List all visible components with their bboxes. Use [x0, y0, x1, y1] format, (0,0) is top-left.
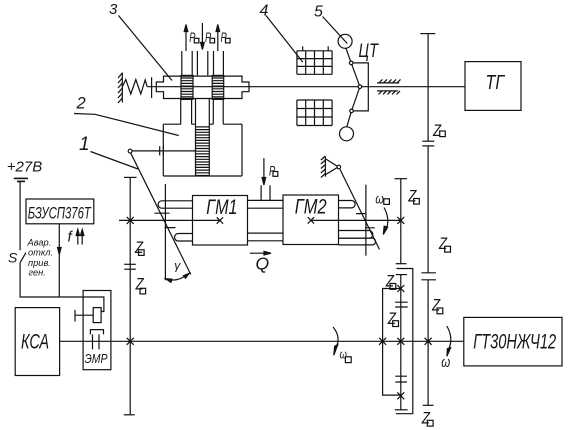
svg-text:Авар.: Авар. [27, 237, 52, 247]
valve stem shaft [147, 86, 465, 88]
valve spool land left [181, 75, 193, 99]
svg-text:Z: Z [421, 409, 430, 428]
svg-text:ω: ω [375, 191, 384, 207]
spring seat [151, 77, 153, 98]
sun gear mesh upper [395, 302, 408, 307]
svg-text:ЭМР: ЭМР [85, 351, 108, 366]
svg-text:γ: γ [174, 258, 181, 272]
servo link to lever [132, 146, 196, 155]
gear label Z left shaft upper [134, 238, 144, 257]
swash plate lever GM1 [131, 153, 191, 275]
GM1 piston ticks [155, 213, 176, 227]
svg-text:ГМ1: ГМ1 [206, 196, 237, 219]
feedback f arrows [68, 229, 84, 246]
svg-text:прив.: прив. [28, 258, 51, 268]
GM2 shaft mark [308, 217, 314, 223]
GM2 lower piston outer [339, 238, 376, 245]
sun gear mesh lower [395, 376, 407, 382]
junction lower shaft x carrier leg [379, 338, 386, 345]
left vertical gear shaft [124, 177, 137, 414]
svg-text:S: S [8, 249, 18, 265]
output gearbox ГТ30НЖЧ12 [464, 317, 562, 366]
carrier left bracket [383, 289, 401, 396]
tachogenerator drive shaft lower section [427, 146, 429, 273]
BZUSP control box [26, 199, 94, 224]
junction carrier top x central shaft [397, 285, 404, 292]
junction lower shaft x left shaft [127, 338, 134, 345]
label P boost 3 [221, 29, 231, 45]
GM2 trunnion axis [365, 185, 367, 256]
valve spool land right [212, 75, 224, 99]
gear label Z near TG shaft [432, 121, 445, 140]
gear label Z carrier upper [385, 272, 396, 291]
hydraulic machine GM2 box [283, 195, 339, 245]
gear label Z bottom [421, 409, 433, 428]
svg-text:ГТ30НЖЧ12: ГТ30НЖЧ12 [473, 331, 556, 354]
svg-text:f: f [68, 229, 74, 246]
swash plate GM2 [340, 169, 380, 249]
svg-text:ω: ω [441, 354, 450, 371]
label omega lower left [340, 347, 352, 363]
servo feedback rod [196, 99, 210, 124]
gear label Z right shaft mid [438, 234, 450, 253]
supply wire upper [19, 181, 21, 250]
gear label Z left shaft lower [135, 275, 146, 294]
GM1 trunnion axis [164, 184, 166, 280]
angle gamma arc [166, 258, 190, 282]
rotation arrow lower shaft left [333, 327, 338, 355]
GM1 shaft mark [217, 217, 223, 223]
junction upper shaft x left shaft [127, 217, 134, 224]
label P boost at port [269, 163, 278, 179]
supply wire lower [20, 262, 104, 311]
GM2 piston ticks [356, 214, 375, 228]
EMR clutch box [83, 291, 111, 370]
governor bottom flyweight [340, 127, 354, 141]
label 4 [260, 3, 303, 63]
control lever pivot [128, 149, 132, 153]
right shaft gear coupling at differential [421, 273, 436, 280]
svg-text:Z: Z [408, 187, 417, 206]
hydraulic machine GM1 box [193, 196, 248, 246]
differential central shaft [395, 275, 408, 410]
bearing support [377, 79, 401, 94]
svg-text:Z: Z [387, 309, 396, 328]
valve top pipes [182, 51, 224, 75]
boost pressure port between GM1 GM2 [261, 158, 270, 200]
servo pipes from valve [181, 99, 224, 124]
junction lower shaft x central shaft [397, 338, 404, 345]
label 1 [79, 134, 138, 169]
svg-text:1: 1 [79, 134, 90, 155]
rotation arrow GM2 shaft [383, 208, 387, 235]
GM2 fixed pivot support [321, 156, 341, 178]
junction carrier bottom x central shaft [397, 392, 404, 399]
rotation arrow output [447, 326, 451, 356]
tachogenerator box ТГ [465, 62, 521, 111]
EMR terminal [75, 310, 93, 322]
flow arrow Q [250, 251, 271, 273]
gear label Z right shaft lower [431, 296, 443, 315]
text emergency label [27, 237, 54, 277]
svg-text:ЦТ: ЦТ [359, 41, 380, 62]
GM2 lower piston inner [339, 231, 373, 239]
svg-text:3: 3 [109, 1, 118, 18]
EMR coil [93, 308, 101, 323]
upper field coil grid [297, 46, 332, 74]
emergency disable wire [58, 224, 62, 297]
wall anchor of spring [118, 73, 122, 104]
label 5 [314, 4, 347, 44]
EMR friction clutch [90, 330, 104, 350]
spring [122, 80, 147, 95]
GM1 lower piston [175, 234, 193, 242]
svg-text:откл.: откл. [28, 248, 53, 258]
label P boost 1 [189, 29, 199, 45]
svg-text:2: 2 [76, 94, 86, 112]
lower field coil grid [297, 100, 332, 126]
GM2 upper piston [339, 201, 356, 208]
label 3 [109, 1, 172, 81]
svg-text:Z: Z [431, 296, 440, 315]
svg-text:ТГ: ТГ [486, 72, 506, 94]
hydraulic lines GM1-GM2 upper channel [248, 200, 283, 208]
hydraulic lines GM1-GM2 lower channel [248, 233, 283, 241]
feedback spring ladder [196, 124, 210, 176]
svg-text:БЗУСП376Т: БЗУСП376Т [28, 204, 92, 223]
supply terminal [14, 178, 28, 181]
upper shaft left [119, 219, 220, 221]
governor linkage [346, 48, 362, 127]
planet carrier right bracket [396, 269, 413, 414]
svg-text:ГМ2: ГМ2 [295, 196, 327, 219]
switch S [8, 249, 26, 265]
valve body (item 3) [156, 76, 249, 98]
svg-text:Z: Z [438, 234, 447, 253]
label 2 [74, 94, 179, 135]
junction lower shaft x right shaft [425, 338, 432, 345]
gear coupling on left shaft [124, 264, 136, 269]
KCA box [15, 308, 59, 376]
label P boost 2 [205, 29, 215, 45]
governor sleeve bracket [353, 63, 368, 111]
right shaft lower section [423, 280, 434, 406]
gear label Z at GM2 drive shaft [408, 187, 420, 206]
gear label Z carrier lower [387, 309, 398, 328]
governor top flyweight [338, 34, 352, 48]
label omega GM2 [375, 191, 389, 207]
lower main shaft [60, 340, 464, 342]
svg-text:5: 5 [314, 4, 323, 21]
GM1 upper piston [158, 201, 193, 208]
svg-text:ген.: ген. [29, 268, 46, 278]
junction upper shaft x GM2 drive shaft [397, 217, 404, 224]
gear coupling on TG shaft [422, 141, 434, 146]
svg-text:+27В: +27В [7, 158, 42, 175]
tachogenerator drive shaft upper section [420, 34, 435, 142]
svg-text:Q: Q [256, 254, 270, 274]
servo cylinder box (item 2) [163, 124, 242, 176]
svg-text:КСА: КСА [21, 331, 49, 354]
boost pressure supply arrows [184, 23, 219, 51]
upper shaft right [311, 219, 401, 221]
GM2 drive vertical shaft [395, 179, 408, 264]
